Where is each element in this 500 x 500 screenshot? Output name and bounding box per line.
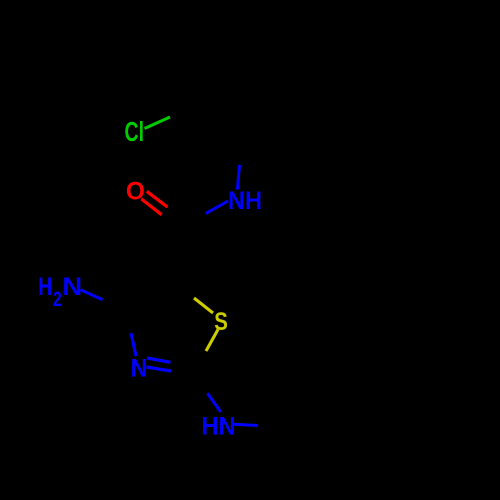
wire: bond H2N-C4 (blue half): [81, 290, 103, 300]
wire: bond N3=C2 lower line (blue half): [146, 367, 171, 371]
wire: bond C=O lower line (red half): [141, 199, 161, 215]
svg-text:HN: HN: [202, 413, 236, 441]
svg-text:NH: NH: [228, 187, 262, 215]
wire: bond C2-NH(amine) (blue half): [208, 393, 221, 412]
wire: bond CH2-NH vertical (blue half): [237, 165, 239, 190]
svg-text:H: H: [38, 273, 52, 301]
wire: bond C(O)-NH (blue half): [206, 201, 228, 214]
wire: bond Cl-CH2 (green half): [145, 117, 171, 129]
svg-text:Cl: Cl: [125, 116, 145, 147]
svg-text:N: N: [131, 355, 148, 383]
svg-text:O: O: [126, 177, 145, 205]
svg-text:2: 2: [53, 288, 62, 311]
wire: bond C=O upper line (red half): [147, 191, 168, 207]
svg-text:S: S: [214, 308, 228, 336]
svg-text:N: N: [62, 273, 82, 301]
wire: bond C4-N3 (blue half): [131, 333, 136, 356]
wire: bond NH-CH3 (blue half): [234, 424, 258, 425]
wire: bond S-C2 (yellow half): [206, 330, 218, 352]
wire: bond N3=C2 upper line (blue half): [147, 358, 171, 362]
wire: bond C5-S (yellow half): [194, 298, 213, 313]
